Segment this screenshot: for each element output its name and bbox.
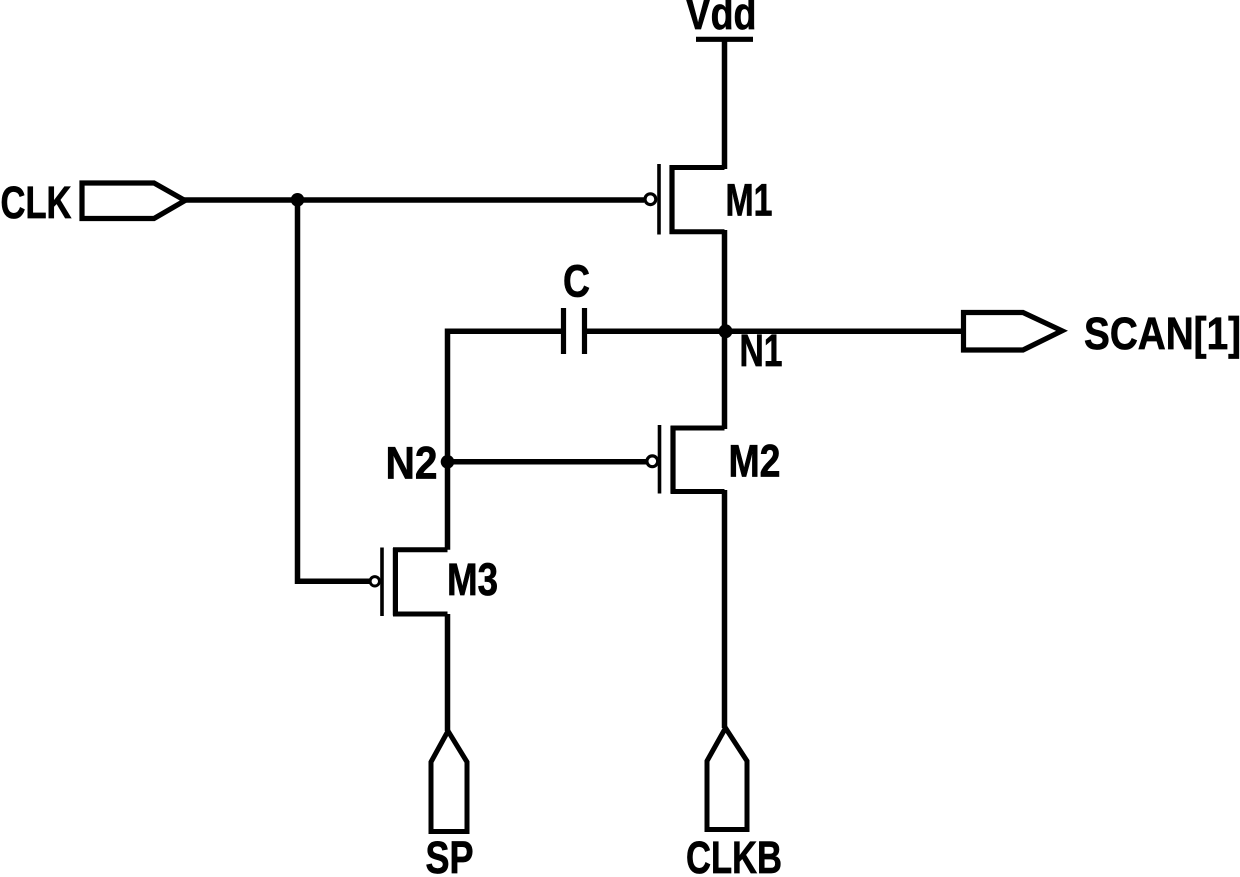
wire Vdd to M1 drain bbox=[722, 39, 728, 169]
svg-text:CLKB: CLKB bbox=[686, 832, 782, 877]
transistor M2 bbox=[647, 425, 725, 494]
wire capacitor right plate to N1 and SCAN port bbox=[587, 329, 963, 335]
node N1 bbox=[719, 324, 733, 338]
power symbol Vdd bar bbox=[696, 37, 753, 42]
wire N2 to M2 gate bbox=[448, 459, 647, 465]
svg-text:N1: N1 bbox=[740, 325, 783, 376]
svg-text:CLK: CLK bbox=[1, 177, 72, 228]
svg-text:C: C bbox=[563, 256, 590, 307]
transistor M3 bbox=[370, 548, 447, 617]
wire CLK junction down to M3 gate bbox=[298, 200, 370, 582]
input port SP bbox=[431, 731, 467, 832]
capacitor C bbox=[564, 308, 585, 354]
wire M3 source to SP port bbox=[445, 614, 451, 731]
input port CLK bbox=[82, 183, 185, 219]
node N2 bbox=[441, 455, 455, 469]
svg-text:M3: M3 bbox=[447, 554, 498, 605]
svg-text:Vdd: Vdd bbox=[686, 0, 757, 39]
svg-text:SCAN[1]: SCAN[1] bbox=[1084, 308, 1240, 359]
svg-text:SP: SP bbox=[426, 832, 474, 877]
transistor M1 bbox=[645, 164, 725, 235]
wire M1 source to M2 drain through N1 bbox=[722, 230, 728, 429]
wire capacitor left plate to N2 column bbox=[448, 331, 562, 549]
input port CLKB bbox=[707, 728, 747, 830]
junction node CLK bbox=[291, 193, 305, 207]
svg-text:M1: M1 bbox=[726, 175, 773, 226]
svg-text:N2: N2 bbox=[386, 438, 438, 489]
wire M2 source to CLKB port bbox=[722, 490, 728, 728]
output port SCAN[1] bbox=[964, 313, 1063, 351]
wire CLK to M1 gate bbox=[183, 197, 644, 203]
svg-text:M2: M2 bbox=[729, 436, 781, 487]
